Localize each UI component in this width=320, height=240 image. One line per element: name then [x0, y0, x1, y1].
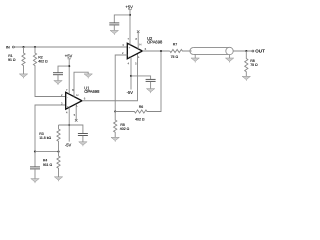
- capacitor bypass +5V U2: [109, 15, 130, 31]
- svg-text:-5V: -5V: [65, 142, 72, 147]
- svg-text:-: -: [129, 54, 130, 58]
- node junction +5V bypass U2: [129, 14, 131, 16]
- svg-text:H: H: [139, 43, 141, 47]
- ground below R5: [111, 137, 119, 142]
- svg-text:91 Ω: 91 Ω: [8, 58, 16, 62]
- ground at U1 VH: [84, 74, 92, 79]
- ground below R8: [242, 76, 250, 81]
- ground below -5V cap U2: [146, 89, 154, 94]
- no-connect U2 VH: [137, 30, 140, 33]
- ground below -5V cap U1: [79, 142, 87, 147]
- ground below R1: [19, 74, 27, 79]
- wire -5V rail to R3 and cap: [59, 125, 83, 133]
- svg-text:-: -: [67, 95, 68, 99]
- svg-text:402 Ω: 402 Ω: [120, 127, 130, 131]
- no-connect U1 VL: [75, 119, 78, 122]
- wire U1 output to U2 VL: [82, 54, 138, 101]
- ground coax shield right: [225, 55, 233, 63]
- node junction R3 R4: [57, 151, 59, 153]
- svg-text:OUT: OUT: [255, 48, 265, 53]
- svg-text:402 Ω: 402 Ω: [135, 117, 145, 121]
- svg-text:402 Ω: 402 Ω: [38, 59, 48, 63]
- svg-text:75 Ω: 75 Ω: [171, 55, 179, 59]
- resistor R6 402 ohm feedback: [115, 51, 161, 121]
- capacitor C noise filter at +IN: [30, 152, 40, 179]
- node junction output feedback: [160, 50, 162, 52]
- resistor R4 911 ohm: [43, 152, 60, 177]
- node junction R8: [245, 50, 247, 52]
- node junction +5V bypass: [68, 65, 70, 67]
- wire U1 VH to ground: [74, 72, 88, 96]
- svg-text:+5V: +5V: [126, 4, 134, 9]
- svg-text:11.5 kΩ: 11.5 kΩ: [39, 136, 51, 140]
- svg-text:+: +: [129, 46, 131, 50]
- resistor R5 402 ohm: [114, 112, 130, 138]
- node IN terminal: [6, 45, 14, 49]
- resistor R8 75 ohm: [245, 51, 258, 76]
- wire coax to OUT: [233, 50, 252, 52]
- node junction R2: [34, 46, 36, 48]
- ground below R4: [54, 177, 62, 182]
- svg-text:911 Ω: 911 Ω: [43, 163, 53, 167]
- wire U2 pin2 feedback node: [115, 55, 127, 112]
- op-amp U1 OPA698: [61, 85, 100, 117]
- node junction -5V bypass U2: [130, 75, 132, 77]
- resistor R2 402 ohm: [33, 47, 65, 97]
- resistor R1 91 ohm: [8, 47, 25, 74]
- ground below cap: [31, 179, 39, 184]
- svg-text:OPA698: OPA698: [84, 89, 100, 94]
- svg-text:H: H: [76, 93, 78, 97]
- transmission line coax: [190, 47, 233, 54]
- svg-text:R6: R6: [139, 105, 144, 109]
- wire U2 pin4 -5V: [127, 57, 134, 95]
- svg-text:+5V: +5V: [65, 54, 73, 59]
- node junction -5V bypass U1: [68, 124, 70, 126]
- capacitor bypass -5V U2: [131, 76, 156, 89]
- svg-text:R7: R7: [173, 43, 178, 47]
- node junction pin3/divider: [34, 151, 36, 153]
- svg-text:OPA698: OPA698: [147, 40, 163, 45]
- ground below bypass cap U2: [110, 30, 118, 35]
- svg-text:R4: R4: [43, 159, 48, 163]
- svg-text:75 Ω: 75 Ω: [250, 63, 258, 67]
- wire U1 pin3 to divider: [35, 105, 66, 152]
- wire U1 VL stub: [75, 104, 77, 120]
- wire U2 VH stub: [137, 33, 139, 49]
- svg-text:IN: IN: [6, 45, 10, 49]
- resistor R3 11.5 kohm: [39, 125, 60, 152]
- node junction R1: [22, 46, 24, 48]
- svg-text:-5V: -5V: [127, 90, 134, 95]
- wire input rail: [14, 46, 127, 48]
- svg-text:+: +: [67, 105, 69, 109]
- wire U1 pin4 -5V: [65, 107, 72, 147]
- +5V supply U1: [65, 54, 73, 94]
- wire divider tap: [35, 151, 59, 153]
- ground coax shield left: [191, 54, 199, 62]
- capacitor bypass +5V U1: [53, 66, 69, 80]
- resistor R7 75 ohm: [170, 43, 192, 59]
- op-amp U2 OPA698: [122, 36, 163, 65]
- capacitor bypass -5V U1: [78, 134, 88, 142]
- ground below bypass cap U1: [54, 81, 62, 86]
- wire U2 output: [142, 50, 169, 52]
- node OUT terminal: [252, 48, 265, 53]
- node junction feedback: [114, 110, 116, 112]
- +5V supply U2: [126, 4, 134, 44]
